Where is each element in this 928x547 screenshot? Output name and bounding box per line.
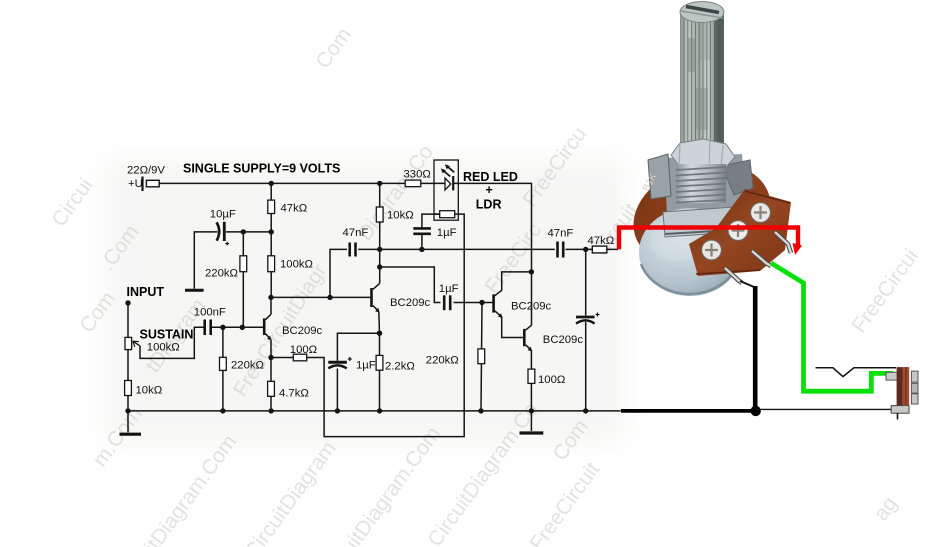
wire mid rail 249	[380, 248, 618, 250]
wire 47k branch vertical	[270, 183, 272, 297]
wire bypass cap to rail	[336, 369, 338, 411]
node 47nF-collector	[377, 247, 382, 252]
capacitor 1uF interstage	[444, 295, 450, 310]
pot brown body rear disc	[620, 147, 783, 284]
wire black thick along rail	[621, 409, 756, 413]
svg-text:100kΩ: 100kΩ	[147, 341, 180, 353]
wire Q1 emitter 100R loop to LDR	[271, 214, 464, 437]
svg-text:INPUT: INPUT	[127, 285, 165, 299]
svg-text:+U: +U	[128, 178, 143, 190]
wire 10uF left to ground	[194, 232, 217, 289]
svg-text:BC209c: BC209c	[390, 297, 431, 309]
pot shaft top cap with slot	[680, 2, 724, 23]
wire coupling to Q3 base	[380, 267, 493, 303]
potentiometer sustain 100k	[125, 337, 140, 349]
svg-text:1µF: 1µF	[356, 359, 376, 371]
pot lug pin 3	[725, 268, 742, 283]
pot aluminium can	[639, 208, 741, 296]
node rail dots	[125, 408, 130, 413]
svg-text:100Ω: 100Ω	[290, 344, 317, 356]
resistor 220k lower bias	[220, 357, 227, 370]
svg-text:BC209c: BC209c	[282, 325, 323, 337]
wire emitter bypass branch	[337, 333, 379, 361]
node common collectors	[529, 269, 534, 274]
node 47nF feedback tap	[327, 295, 332, 300]
capacitor 47nF first	[350, 243, 356, 257]
capacitor 47nF output	[558, 242, 564, 258]
transistor Q4 BC209c	[524, 325, 532, 351]
svg-text:10kΩ: 10kΩ	[387, 209, 414, 221]
pot lug pin 1	[775, 232, 791, 253]
pot hex nut	[671, 139, 735, 172]
wire 1uF bottom to mid rail	[421, 235, 423, 249]
svg-text:100nF: 100nF	[194, 306, 226, 318]
svg-text:SUSTAIN: SUSTAIN	[140, 327, 194, 341]
svg-text:220kΩ: 220kΩ	[426, 354, 459, 366]
pot lug pin 2	[752, 251, 771, 266]
pot rivet 2	[728, 221, 748, 241]
LDR	[434, 211, 455, 218]
wire Q1 emitter	[270, 340, 272, 358]
node 100k-47k junction	[269, 229, 274, 234]
svg-text:+: +	[486, 183, 493, 197]
battery +U 22ohm/9V supply	[143, 177, 160, 192]
resistor 10k second stage	[376, 207, 383, 222]
svg-text:47nF: 47nF	[548, 227, 574, 239]
ground under 10uF	[185, 289, 204, 292]
transistor Q3 BC209c	[494, 290, 503, 318]
svg-text:220kΩ: 220kΩ	[231, 359, 264, 371]
svg-text:47kΩ: 47kΩ	[588, 235, 615, 247]
potentiometer photo	[620, 2, 791, 297]
svg-text:4.7kΩ: 4.7kΩ	[279, 387, 309, 399]
node Q1 emitter	[268, 355, 273, 360]
capacitor 100nF input	[205, 320, 211, 336]
node solder joint black	[751, 406, 761, 416]
PHOTO	[619, 2, 918, 420]
wire Q1-Q2 base link	[271, 296, 371, 298]
svg-text:LDR: LDR	[476, 197, 502, 211]
wire 10uF right to 47k node	[226, 231, 271, 233]
wire wiper to 100nF	[140, 327, 204, 358]
svg-text:100Ω: 100Ω	[538, 374, 565, 386]
resistor 220k Q3 base	[478, 303, 485, 411]
wire Q3 collector	[502, 272, 532, 291]
svg-text:47kΩ: 47kΩ	[281, 202, 308, 214]
resistor 47k first stage	[268, 200, 275, 213]
capacitor 1uF output electrolytic	[576, 249, 600, 411]
node input top	[125, 300, 130, 305]
ground bottom left	[120, 411, 142, 434]
svg-text:2.2kΩ: 2.2kΩ	[385, 360, 415, 372]
node Q3 base	[479, 300, 484, 305]
ground Q4	[520, 411, 544, 433]
capacitor 10uF electrolytic	[217, 222, 229, 246]
LED red	[445, 176, 453, 190]
wire Q2 emitter	[378, 312, 381, 411]
wire 47nF branch	[330, 249, 380, 297]
wire black thick vertical	[753, 286, 758, 411]
node collector-coupling	[377, 264, 382, 269]
wire Q1 collector	[270, 297, 272, 314]
node output filter top	[583, 247, 588, 252]
resistor 2.2k emitter	[376, 355, 383, 370]
resistor 220k upper bias	[240, 256, 247, 272]
wire Q3 emitter to Q4 base	[502, 317, 524, 338]
capacitor 1uF LDR coupling	[413, 228, 431, 233]
svg-text:100kΩ: 100kΩ	[280, 258, 313, 270]
resistor 100k first stage	[268, 256, 275, 272]
svg-text:10kΩ: 10kΩ	[136, 385, 163, 397]
node base-220k upper	[240, 325, 245, 330]
LED emission arrows	[441, 164, 455, 176]
wire red output to pot	[619, 228, 798, 250]
wire top rail 9V	[159, 182, 446, 184]
resistor 100R feedback	[293, 354, 306, 361]
wire Q4 emitter	[530, 350, 532, 411]
svg-text:BC209c: BC209c	[511, 300, 552, 312]
pot brown terminal wafer	[689, 189, 791, 276]
wire sleeve to jack	[756, 408, 892, 410]
LABELS	[127, 162, 615, 400]
wire 10k/Q2 collector vertical	[379, 183, 381, 283]
wire 1uF to LDR	[422, 214, 440, 227]
transistor Q2 BC209c	[372, 283, 380, 312]
optocoupler box LED+LDR	[434, 160, 458, 220]
svg-text:1µF: 1µF	[439, 283, 459, 295]
wire jack tip line with notch	[816, 368, 897, 377]
node 10uF-220k	[241, 229, 246, 234]
wire 220k upper branch	[242, 232, 244, 327]
capacitor 1uF emitter bypass electrolytic	[328, 357, 352, 368]
svg-text:22Ω/9V: 22Ω/9V	[127, 165, 165, 177]
wire bottom ground rail	[128, 410, 621, 412]
pot shaft knurled	[680, 2, 724, 148]
pot metal housing	[664, 154, 746, 214]
pot rivet 3	[702, 240, 722, 260]
resistor 47k output	[592, 246, 607, 253]
node Q2 emitter	[377, 331, 382, 336]
svg-text:330Ω: 330Ω	[404, 168, 431, 180]
svg-text:BC209c: BC209c	[543, 334, 584, 346]
pot rivet 1	[751, 203, 771, 223]
node base-220k lower	[220, 325, 225, 330]
svg-text:SINGLE SUPPLY=9 VOLTS: SINGLE SUPPLY=9 VOLTS	[183, 162, 340, 176]
wire 220k lower branch	[222, 327, 224, 411]
wire rail after LED to right vertical	[454, 183, 532, 325]
node Q1 collector	[268, 295, 273, 300]
jack plug body	[886, 367, 918, 419]
resistor 10k input	[125, 381, 132, 396]
svg-text:10µF: 10µF	[210, 208, 236, 220]
wire input left vertical	[127, 303, 129, 411]
pot metal front plate	[663, 206, 751, 237]
wire base line Q1	[212, 326, 263, 328]
svg-text:47nF: 47nF	[343, 227, 369, 239]
node 1uF coupling top	[419, 247, 424, 252]
resistor 4.7k Q1 emitter	[268, 358, 275, 411]
pot threaded bushing	[676, 164, 726, 203]
resistor 100R Q4 emitter	[528, 369, 535, 383]
node rail-47k	[269, 181, 274, 186]
wire black pot to ground thin lead	[740, 281, 754, 287]
wire green pot to jack tip	[771, 263, 893, 391]
svg-text:1µF: 1µF	[437, 227, 457, 239]
svg-text:220kΩ: 220kΩ	[205, 267, 238, 279]
transistor Q1 BC209c	[264, 314, 271, 340]
resistor 330R LED	[405, 180, 421, 187]
node rail-10k	[377, 181, 382, 186]
